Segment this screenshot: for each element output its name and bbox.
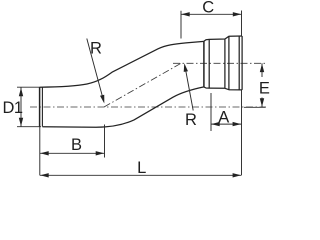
- svg-text:R: R: [90, 40, 102, 58]
- svg-text:R: R: [185, 111, 197, 129]
- svg-text:E: E: [259, 80, 270, 98]
- svg-text:A: A: [218, 108, 229, 126]
- svg-text:L: L: [137, 159, 146, 177]
- svg-text:C: C: [202, 0, 214, 17]
- svg-text:B: B: [71, 136, 82, 154]
- svg-text:D1: D1: [3, 99, 23, 117]
